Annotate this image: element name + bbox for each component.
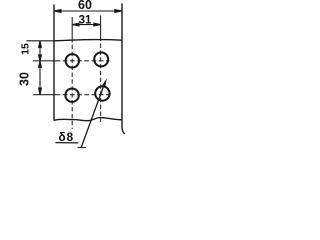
svg-text:30: 30 xyxy=(18,72,32,86)
svg-text:δ: δ xyxy=(58,130,65,144)
svg-text:60: 60 xyxy=(78,0,92,12)
svg-text:8: 8 xyxy=(66,130,73,144)
svg-text:15: 15 xyxy=(20,43,32,55)
svg-text:31: 31 xyxy=(79,15,92,27)
